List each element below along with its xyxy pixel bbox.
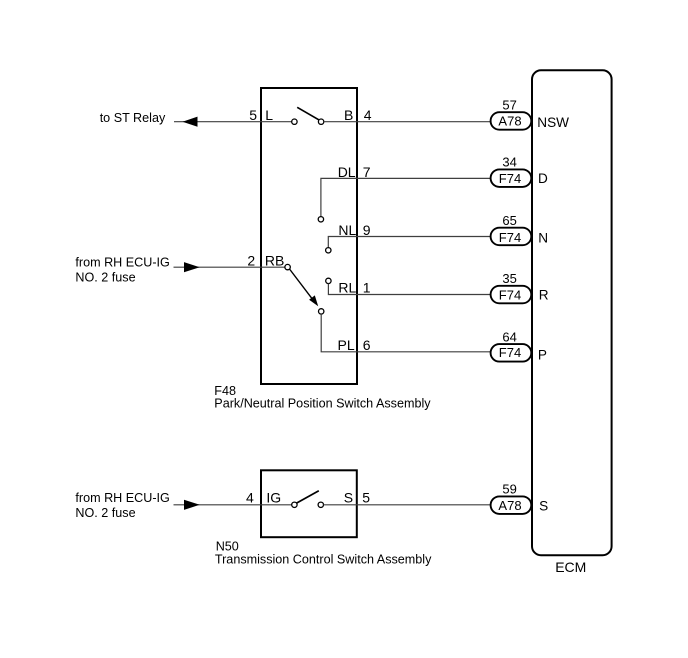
contact circle L <box>292 119 297 124</box>
svg-text:F74: F74 <box>499 287 521 302</box>
connector oval F74 (D) <box>491 169 532 187</box>
svg-text:NO. 2 fuse: NO. 2 fuse <box>75 506 135 520</box>
selector blade RB <box>290 269 314 301</box>
ECM box <box>532 70 612 555</box>
svg-text:NO. 2 fuse: NO. 2 fuse <box>75 271 135 285</box>
switch blade L-B <box>297 107 319 120</box>
wire S to ECM <box>324 504 492 506</box>
connector oval A78 (S2) <box>491 496 532 514</box>
svg-text:NSW: NSW <box>537 115 569 130</box>
svg-text:B: B <box>344 107 353 123</box>
svg-text:Transmission Control Switch As: Transmission Control Switch Assembly <box>215 552 432 566</box>
arrow into RB (points right) <box>184 262 200 272</box>
svg-text:NL: NL <box>338 222 356 238</box>
svg-text:4: 4 <box>364 107 372 123</box>
arrow to ST Relay (points left) <box>183 117 198 127</box>
svg-text:F74: F74 <box>499 345 521 360</box>
connector oval A78 (NSW) <box>491 112 532 130</box>
svg-text:5: 5 <box>249 107 257 123</box>
svg-text:64: 64 <box>502 329 516 344</box>
svg-text:Park/Neutral Position Switch A: Park/Neutral Position Switch Assembly <box>214 397 431 411</box>
svg-text:6: 6 <box>363 337 371 353</box>
wire B to ECM NSW <box>324 121 491 123</box>
svg-text:S: S <box>539 498 548 513</box>
contact circle DL <box>318 217 323 222</box>
svg-text:from RH ECU-IG: from RH ECU-IG <box>75 256 169 270</box>
svg-text:65: 65 <box>502 213 516 228</box>
svg-text:F74: F74 <box>499 171 521 186</box>
svg-text:7: 7 <box>363 164 371 180</box>
selector blade arrowhead <box>309 295 318 306</box>
svg-text:34: 34 <box>502 155 516 170</box>
connector oval F74 (P) <box>491 344 532 362</box>
svg-text:9: 9 <box>363 222 371 238</box>
svg-text:D: D <box>538 171 548 186</box>
contact circle RL <box>326 278 331 283</box>
svg-text:DL: DL <box>338 164 356 180</box>
wire PL to ECM P <box>321 314 491 352</box>
contact circle B <box>318 119 323 124</box>
contact circle S <box>318 502 323 507</box>
wire fuse to IG <box>174 504 292 506</box>
svg-text:35: 35 <box>502 271 516 286</box>
contact circle RB <box>285 264 290 269</box>
svg-text:PL: PL <box>338 337 355 353</box>
wire NL to ECM N <box>328 237 491 248</box>
connector oval F74 (R) <box>491 286 532 304</box>
wire to ST Relay <box>174 121 292 123</box>
box N50 Transmission Control Switch <box>261 470 357 537</box>
svg-text:57: 57 <box>502 98 516 113</box>
switch blade IG-S <box>296 491 319 504</box>
svg-text:ECM: ECM <box>555 559 586 575</box>
arrow into IG (points right) <box>184 500 200 510</box>
svg-text:5: 5 <box>362 489 370 505</box>
svg-text:2: 2 <box>247 253 255 269</box>
box F48 Park/Neutral Position Switch <box>261 88 357 384</box>
svg-text:RB: RB <box>265 253 284 269</box>
svg-text:59: 59 <box>502 482 516 497</box>
contact circle IG <box>292 502 297 507</box>
wire fuse to RB <box>174 266 286 268</box>
wire DL to ECM D <box>321 178 491 216</box>
connector oval F74 (N) <box>491 228 532 246</box>
svg-text:S: S <box>344 489 353 505</box>
svg-text:P: P <box>538 347 547 362</box>
svg-text:L: L <box>265 107 273 123</box>
svg-text:4: 4 <box>246 489 254 505</box>
svg-text:A78: A78 <box>498 498 521 513</box>
svg-text:IG: IG <box>266 489 281 505</box>
svg-text:N: N <box>538 231 548 246</box>
svg-text:R: R <box>539 287 549 302</box>
wire RL to ECM R <box>328 284 491 295</box>
svg-text:RL: RL <box>338 280 356 296</box>
contact circle NL <box>326 248 331 253</box>
svg-text:to ST Relay: to ST Relay <box>100 111 166 125</box>
svg-text:A78: A78 <box>498 114 521 129</box>
svg-text:1: 1 <box>363 280 371 296</box>
svg-text:from RH ECU-IG: from RH ECU-IG <box>75 491 169 505</box>
contact circle PL <box>319 309 324 314</box>
svg-text:F74: F74 <box>499 230 521 245</box>
